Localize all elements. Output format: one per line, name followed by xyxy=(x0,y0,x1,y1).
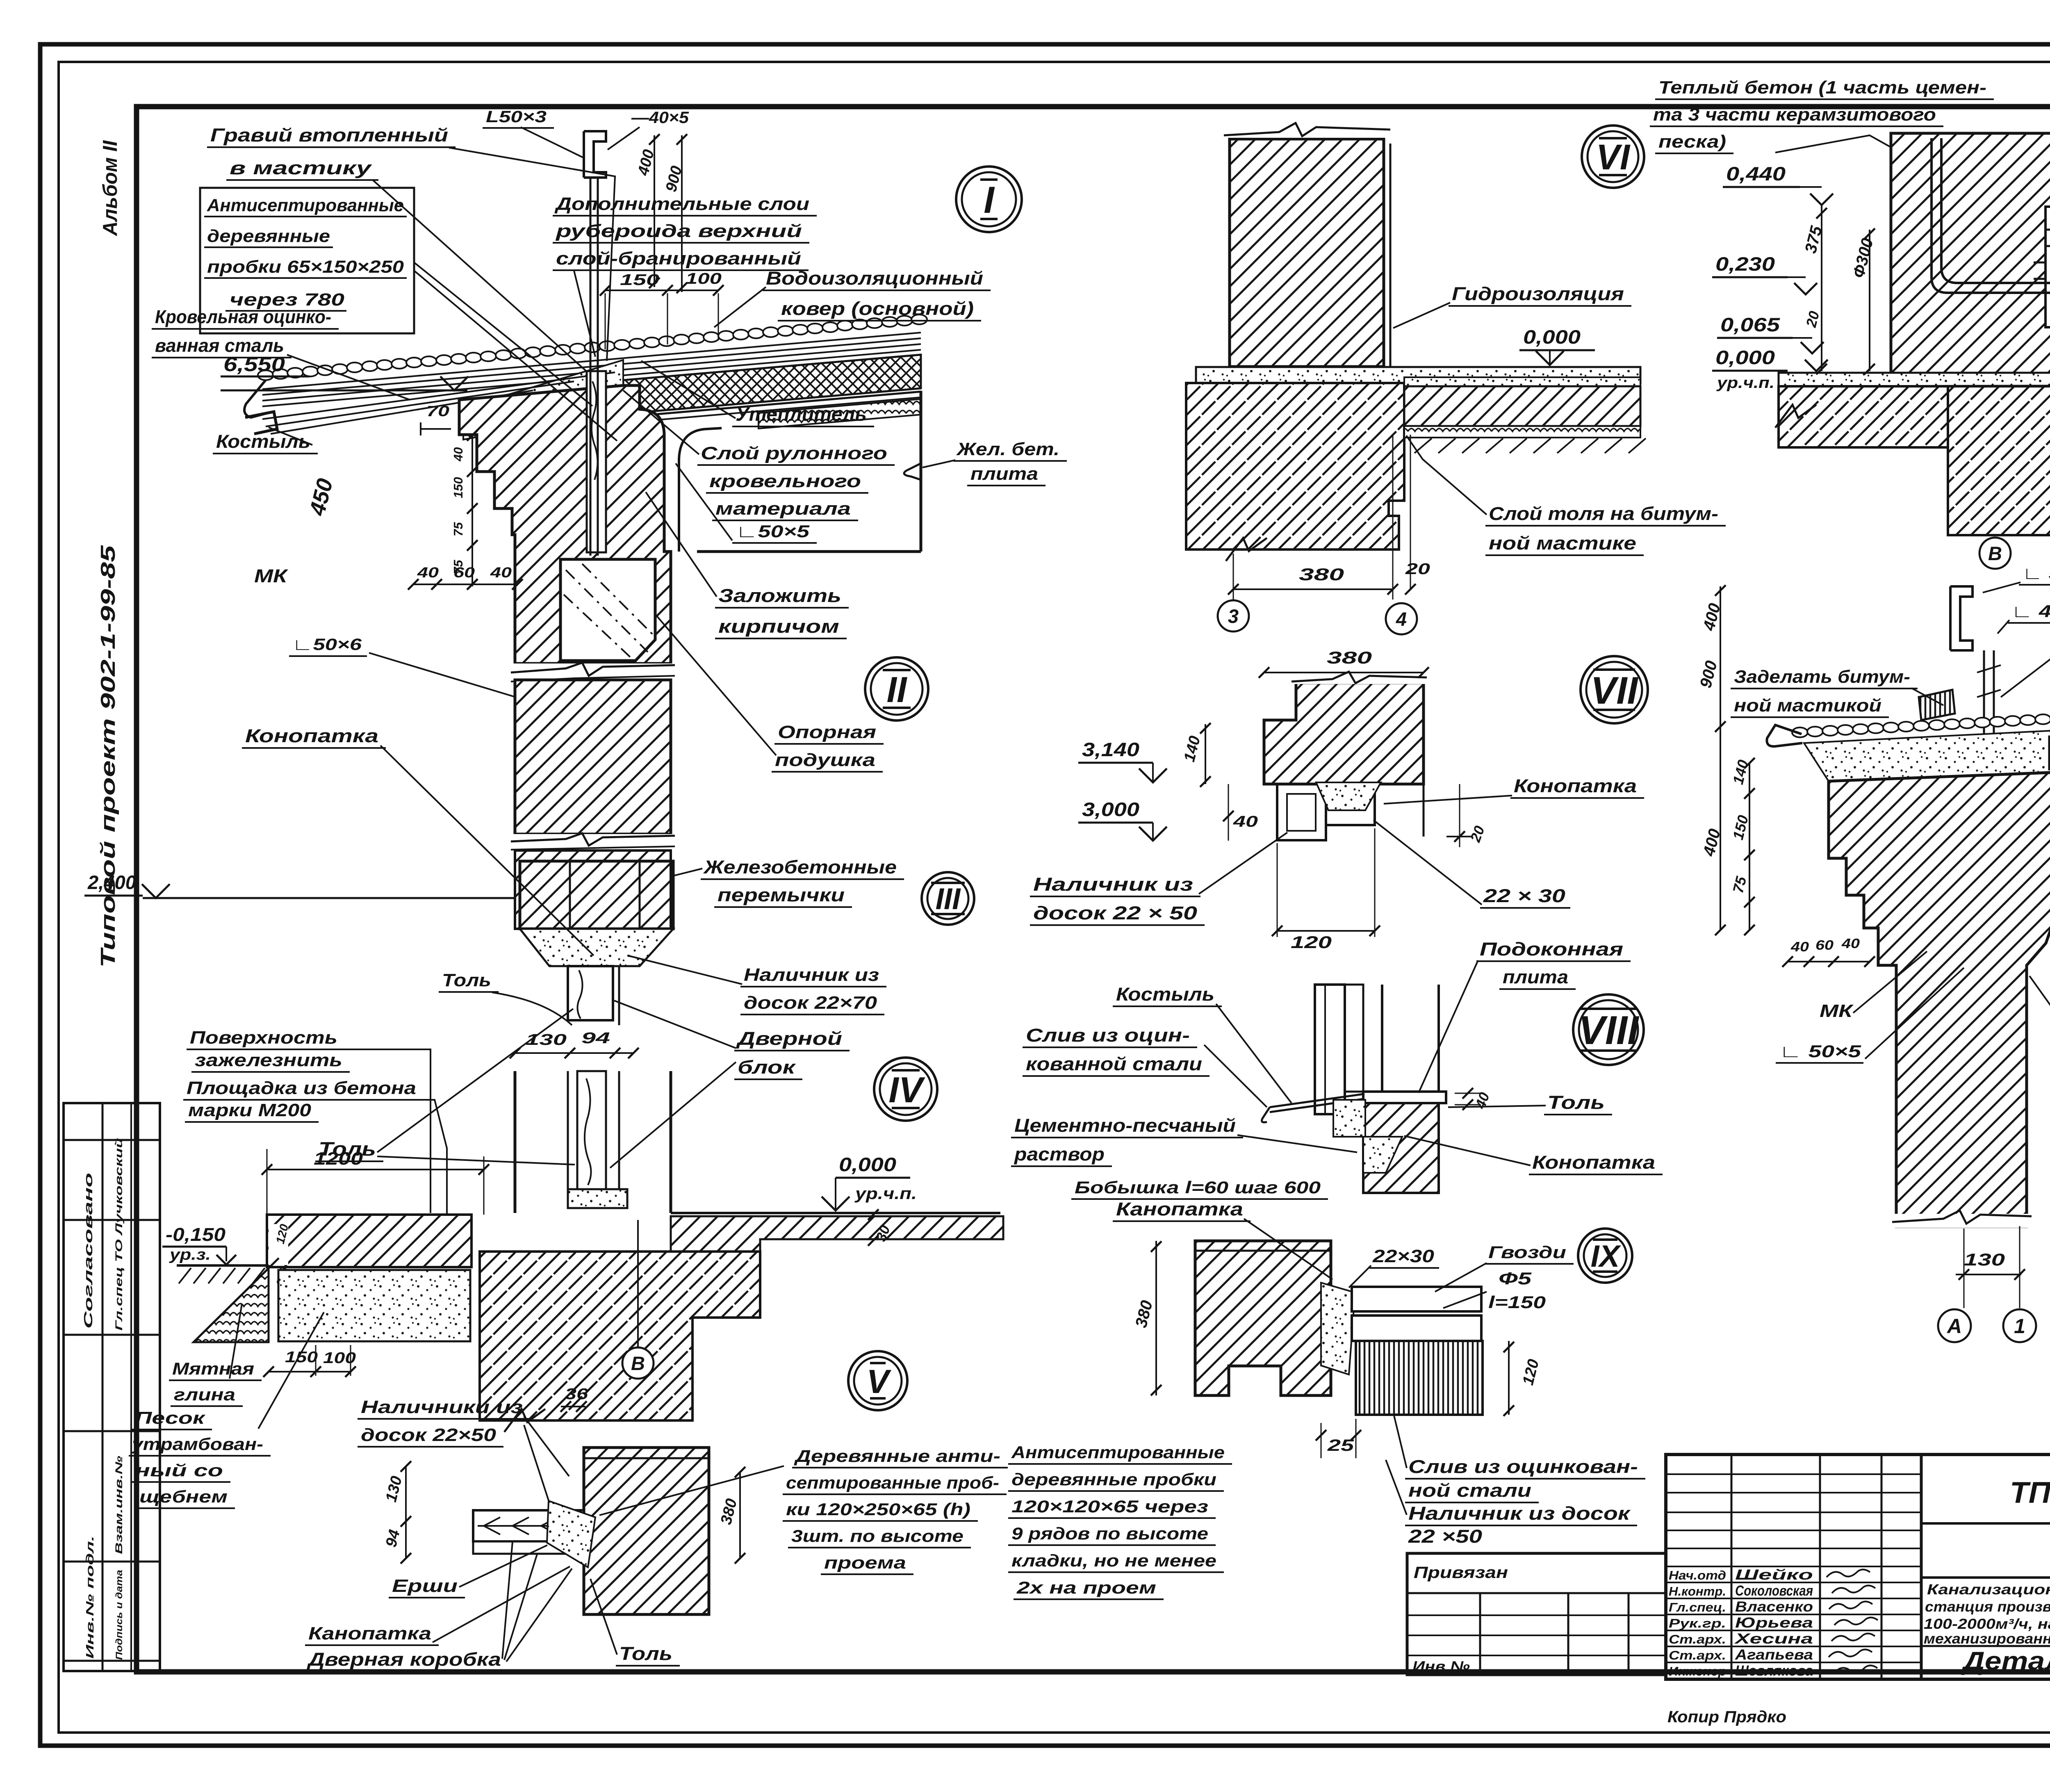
detail X floor slab stipple xyxy=(1779,373,2050,386)
svg-text:40: 40 xyxy=(1841,936,1860,951)
svg-text:0,440: 0,440 xyxy=(1726,163,1786,185)
detail VII caulk wedge xyxy=(1316,782,1381,810)
title block bottom line xyxy=(1666,1678,2050,1680)
detail I steel apron lines xyxy=(262,372,615,419)
svg-text:В: В xyxy=(631,1352,645,1374)
detail I roof gravel row xyxy=(258,370,273,380)
leader gravij xyxy=(449,148,615,361)
svg-text:Дверной: Дверной xyxy=(736,1028,842,1049)
svg-text:А: А xyxy=(1946,1315,1962,1338)
svg-text:перемычки: перемычки xyxy=(717,885,845,905)
detail VII window frame boxes xyxy=(1277,784,1326,840)
svg-text:Наличник из: Наличник из xyxy=(1033,874,1193,895)
detail VI marker circle xyxy=(1582,125,1644,188)
svg-text:ТП 902-1-99-85 - АР: ТП 902-1-99-85 - АР xyxy=(2010,1476,2050,1509)
svg-text:ный со: ный со xyxy=(135,1461,223,1480)
svg-text:Дополнительные слои: Дополнительные слои xyxy=(554,194,809,214)
svg-text:Ст.арх.: Ст.арх. xyxy=(1669,1648,1726,1662)
svg-text:МК: МК xyxy=(254,565,289,586)
svg-text:Инв.№ подл.: Инв.№ подл. xyxy=(84,1536,96,1659)
detail III marker circle xyxy=(922,872,974,925)
svg-text:рубероида верхний: рубероида верхний xyxy=(556,221,802,241)
svg-text:септированные проб-: септированные проб- xyxy=(786,1473,999,1492)
svg-text:6,550: 6,550 xyxy=(223,353,285,376)
svg-text:ур.з.: ур.з. xyxy=(169,1246,211,1263)
svg-text:Копир Прядко: Копир Прядко xyxy=(1667,1708,1786,1726)
svg-text:9 рядов по высоте: 9 рядов по высоте xyxy=(1011,1524,1208,1543)
svg-text:Привязан: Привязан xyxy=(1414,1564,1508,1582)
svg-text:120: 120 xyxy=(1291,932,1332,952)
svg-text:Антисептированные: Антисептированные xyxy=(1011,1443,1225,1462)
svg-text:Инв.№: Инв.№ xyxy=(1412,1658,1470,1675)
svg-text:Мятная: Мятная xyxy=(172,1359,254,1378)
detail XI insulation cross-hatch xyxy=(2049,730,2050,769)
axis circles 3 and 4 xyxy=(1218,600,1249,632)
svg-text:75: 75 xyxy=(451,522,465,536)
svg-text:120×120×65 через: 120×120×65 через xyxy=(1011,1497,1208,1516)
detail I masonry wall and cornice xyxy=(459,385,671,663)
platform inner dims 120 100 xyxy=(269,1224,288,1265)
svg-text:∟ 50×5: ∟ 50×5 xyxy=(1779,1042,1861,1061)
svg-text:Площадка из бетона: Площадка из бетона xyxy=(187,1078,416,1098)
svg-text:40: 40 xyxy=(1233,813,1258,830)
svg-text:∟ 50×5: ∟ 50×5 xyxy=(2022,563,2050,583)
svg-text:Конопатка: Конопатка xyxy=(1514,775,1637,796)
svg-text:Наличник из: Наличник из xyxy=(744,965,879,985)
svg-text:плита: плита xyxy=(1503,967,1568,987)
svg-text:Дверная коробка: Дверная коробка xyxy=(306,1649,501,1670)
svg-text:зажелезнить: зажелезнить xyxy=(195,1050,342,1070)
svg-text:150: 150 xyxy=(620,271,659,289)
svg-text:Заложить: Заложить xyxy=(718,585,841,606)
svg-text:2,400: 2,400 xyxy=(87,871,136,893)
detail IX boards xyxy=(1352,1287,1481,1311)
svg-text:3,140: 3,140 xyxy=(1082,739,1139,760)
leader krovelnaja stal xyxy=(287,355,410,400)
svg-text:Инженер: Инженер xyxy=(1669,1664,1726,1678)
detail V second board xyxy=(473,1541,584,1554)
detail VIII marker circle xyxy=(1573,994,1644,1065)
axis circles A and 1 xyxy=(1938,1309,1971,1342)
svg-text:22 × 30: 22 × 30 xyxy=(1483,885,1565,906)
detail X vertical dim lines xyxy=(1821,205,1822,371)
svg-text:Слив из оцин-: Слив из оцин- xyxy=(1026,1025,1190,1046)
clay slope scallops xyxy=(194,1268,269,1342)
svg-text:36: 36 xyxy=(565,1386,588,1403)
svg-text:40: 40 xyxy=(417,565,439,581)
svg-text:подушка: подушка xyxy=(775,750,875,770)
detail V caulk wedge xyxy=(547,1501,595,1567)
svg-text:досок 22 × 50: досок 22 × 50 xyxy=(1033,903,1197,923)
detail V marker circle xyxy=(848,1351,907,1410)
svg-text:кирпичом: кирпичом xyxy=(718,616,839,637)
dim 380 IX xyxy=(1155,1241,1157,1395)
svg-text:Толь: Толь xyxy=(442,970,491,990)
svg-text:∟ 40×6: ∟ 40×6 xyxy=(2011,602,2050,621)
svg-text:Альбом II: Альбом II xyxy=(99,140,121,236)
svg-text:Слой толя на битум-: Слой толя на битум- xyxy=(1489,503,1718,524)
svg-text:Агапьева: Агапьева xyxy=(1735,1647,1813,1663)
privjazan table xyxy=(1407,1553,1666,1675)
detail XI screed stipple wedge xyxy=(1804,731,2050,781)
dims 400 900 vertical xyxy=(654,135,655,287)
svg-text:40: 40 xyxy=(490,565,512,581)
foundation under wall detail IV xyxy=(480,1252,760,1420)
svg-text:ур.ч.п.: ур.ч.п. xyxy=(854,1185,917,1203)
svg-text:Гвозди: Гвозди xyxy=(1488,1243,1566,1262)
detail I slab edge break xyxy=(904,463,921,480)
detail VIII caulk stipple xyxy=(1333,1100,1365,1137)
svg-text:деревянные пробки: деревянные пробки xyxy=(1011,1470,1216,1489)
svg-text:VI: VI xyxy=(1596,137,1631,177)
svg-text:деревянные: деревянные xyxy=(207,226,330,246)
svg-text:Юрьева: Юрьева xyxy=(1735,1615,1813,1631)
svg-text:70: 70 xyxy=(426,403,449,420)
svg-text:380: 380 xyxy=(1299,565,1344,584)
detail V dims 130 94 380 36 xyxy=(405,1466,407,1558)
svg-text:Цементно-песчаный: Цементно-песчаный xyxy=(1014,1115,1236,1136)
svg-text:кладки, но не менее: кладки, но не менее xyxy=(1011,1551,1216,1570)
detail VI wall xyxy=(1230,139,1384,367)
label antiseptic plugs box xyxy=(200,188,414,333)
svg-text:Нач.отд: Нач.отд xyxy=(1669,1568,1726,1582)
dim 140 VII xyxy=(1205,724,1206,784)
svg-text:Соколовская: Соколовская xyxy=(1735,1583,1813,1599)
door frame head detail III xyxy=(568,966,613,1020)
svg-text:0,000: 0,000 xyxy=(839,1154,896,1175)
svg-text:плита: плита xyxy=(970,464,1038,484)
svg-text:Слой рулонного: Слой рулонного xyxy=(701,443,887,463)
svg-text:утрамбован-: утрамбован- xyxy=(131,1434,263,1454)
left margin signature strip table xyxy=(64,1103,160,1671)
svg-text:-0,150: -0,150 xyxy=(166,1224,225,1245)
svg-text:22×30: 22×30 xyxy=(1372,1246,1435,1266)
svg-text:Детали I -XI: Детали I -XI xyxy=(1961,1647,2050,1676)
detail VIII wall upper right xyxy=(1381,985,1383,1103)
ground level line and hatch xyxy=(177,1264,267,1267)
svg-text:Шевлякова: Шевлякова xyxy=(1735,1663,1813,1679)
svg-text:Жел. бет.: Жел. бет. xyxy=(956,439,1059,459)
svg-text:∟50×6: ∟50×6 xyxy=(292,636,362,654)
detail VIII wall below sill xyxy=(1363,1103,1439,1193)
svg-text:IV: IV xyxy=(888,1069,925,1110)
detail I antiseptic plug channel xyxy=(587,371,606,552)
svg-text:Власенко: Власенко xyxy=(1735,1599,1813,1615)
svg-text:ур.ч.п.: ур.ч.п. xyxy=(1716,374,1774,392)
svg-text:100: 100 xyxy=(686,270,722,287)
lintel wood stipple band xyxy=(520,929,673,966)
sand concrete prep stipple xyxy=(278,1270,470,1341)
detail VI ground hatch ticks xyxy=(1414,438,1432,453)
svg-text:Костыль: Костыль xyxy=(216,431,310,452)
svg-text:Бобышка l=60 шаг 600: Бобышка l=60 шаг 600 xyxy=(1075,1178,1321,1197)
svg-text:Гидроизоляция: Гидроизоляция xyxy=(1452,283,1624,304)
svg-text:Теплый бетон (1 часть цемен-: Теплый бетон (1 часть цемен- xyxy=(1658,78,1986,98)
svg-text:2х на проем: 2х на проем xyxy=(1016,1578,1156,1597)
detail XI board layer xyxy=(2049,768,2050,775)
svg-text:Деревянные анти-: Деревянные анти- xyxy=(794,1446,1000,1466)
svg-text:ванная сталь: ванная сталь xyxy=(155,335,284,356)
svg-text:Толь: Толь xyxy=(619,1643,672,1664)
floor slab right of wall xyxy=(671,1212,1000,1214)
svg-text:Подпись и дата: Подпись и дата xyxy=(114,1570,124,1660)
axis circle V-detail B xyxy=(622,1347,654,1379)
svg-text:Песок: Песок xyxy=(135,1408,205,1427)
dim 120 IX xyxy=(1508,1341,1510,1415)
svg-text:40: 40 xyxy=(1790,939,1809,954)
svg-text:проема: проема xyxy=(824,1553,906,1572)
detail I slab top hatched strip xyxy=(758,399,921,429)
svg-text:25: 25 xyxy=(1327,1436,1355,1455)
svg-text:Наличники из: Наличники из xyxy=(361,1397,523,1417)
svg-text:I: I xyxy=(984,179,995,221)
detail VII lintel block xyxy=(1264,683,1424,784)
detail IV wall outline xyxy=(514,1071,517,1213)
svg-text:Шейко: Шейко xyxy=(1735,1567,1813,1583)
svg-text:раствор: раствор xyxy=(1014,1144,1105,1165)
svg-text:Железобетонные: Железобетонные xyxy=(703,857,897,878)
detail X kryshka recess box xyxy=(2045,207,2050,327)
svg-text:Опорная: Опорная xyxy=(778,722,876,742)
svg-text:ковер (основной): ковер (основной) xyxy=(781,298,974,319)
svg-text:20: 20 xyxy=(1405,561,1430,578)
detail VI hydro layer band xyxy=(1404,377,1640,386)
svg-text:механизированными решетками: механизированными решетками xyxy=(1924,1631,2050,1647)
svg-text:кованной стали: кованной стали xyxy=(1026,1053,1202,1074)
detail VI foundation xyxy=(1186,383,1404,549)
svg-text:0,000: 0,000 xyxy=(1523,326,1581,348)
svg-text:60: 60 xyxy=(453,565,475,581)
detail II marker circle xyxy=(865,657,928,720)
svg-text:3шт. по высоте: 3шт. по высоте xyxy=(791,1526,963,1546)
detail X pipe xyxy=(1930,138,1933,277)
wall strip between breaks xyxy=(515,680,671,834)
svg-text:Канализационная насосная: Канализационная насосная xyxy=(1927,1582,2050,1598)
svg-text:ки 120×250×65 (h): ки 120×250×65 (h) xyxy=(786,1500,970,1519)
detail VIII window frame verticals xyxy=(1315,985,1345,1114)
svg-text:Костыль: Костыль xyxy=(1116,984,1214,1005)
svg-text:Заделать битум-: Заделать битум- xyxy=(1734,667,1910,687)
title block project name cell xyxy=(1921,1576,2050,1579)
detail VII lintel top break xyxy=(1291,673,1427,684)
detail XI dim chains left xyxy=(1720,586,1721,930)
svg-text:Антисептированные: Антисептированные xyxy=(207,196,404,215)
svg-text:0,230: 0,230 xyxy=(1715,253,1775,275)
detail I top bracket L50x3 xyxy=(584,131,606,178)
svg-text:380: 380 xyxy=(1327,648,1372,667)
svg-text:Слив из оцинкован-: Слив из оцинкован- xyxy=(1408,1456,1638,1477)
wall break 2 xyxy=(511,834,675,850)
svg-text:Типовой проект 902-1-99-85: Типовой проект 902-1-99-85 xyxy=(97,545,119,968)
detail XI mastic hump xyxy=(1919,690,1955,720)
svg-text:130: 130 xyxy=(1964,1250,2005,1269)
svg-text:досок 22×50: досок 22×50 xyxy=(361,1425,497,1445)
svg-text:Ст.арх.: Ст.арх. xyxy=(1669,1632,1726,1646)
svg-text:150: 150 xyxy=(451,477,465,498)
detail I marker circle xyxy=(956,166,1022,232)
svg-text:кровельного: кровельного xyxy=(709,471,861,491)
detail I kostyl bracket xyxy=(245,412,277,434)
detail VIII cement wedge xyxy=(1363,1137,1402,1173)
detail IX marker circle xyxy=(1578,1229,1632,1283)
detail IX jamb caulk wedge xyxy=(1321,1283,1355,1375)
svg-text:V: V xyxy=(867,1363,892,1400)
detail IV door frame tol channel xyxy=(577,1071,606,1190)
svg-text:40: 40 xyxy=(451,447,465,462)
title block left columns xyxy=(1731,1455,1733,1679)
svg-text:Рук.гр.: Рук.гр. xyxy=(1669,1616,1726,1630)
detail I roof insulation cross-hatch band xyxy=(623,355,921,414)
svg-text:материала: материала xyxy=(715,499,851,519)
svg-text:блок: блок xyxy=(738,1057,796,1078)
detail VII right edge xyxy=(1423,784,1425,837)
detail VII marker circle xyxy=(1581,656,1648,723)
svg-text:22 ×50: 22 ×50 xyxy=(1408,1526,1482,1547)
svg-text:Гравий втопленный: Гравий втопленный xyxy=(210,125,448,146)
svg-text:пробки 65×150×250: пробки 65×150×250 xyxy=(207,257,404,277)
svg-text:II: II xyxy=(887,669,907,710)
detail XI eave drip xyxy=(1767,725,1802,746)
svg-text:Поверхность: Поверхность xyxy=(190,1028,337,1048)
svg-text:∟50×5: ∟50×5 xyxy=(736,522,810,541)
svg-text:Хесина: Хесина xyxy=(1734,1631,1813,1647)
svg-text:Взам.инв.№: Взам.инв.№ xyxy=(114,1455,125,1554)
svg-text:Кровельная оцинко-: Кровельная оцинко- xyxy=(155,306,331,327)
detail IX wall block plan xyxy=(1195,1241,1331,1395)
svg-text:песка): песка) xyxy=(1658,132,1726,152)
svg-text:VIII: VIII xyxy=(1578,1008,1639,1053)
detail X foundation left strip xyxy=(1779,386,1948,447)
svg-text:щебнем: щебнем xyxy=(139,1487,228,1506)
detail I slab outline xyxy=(920,391,922,552)
detail XI top bracket xyxy=(1950,586,1973,650)
svg-text:94: 94 xyxy=(581,1030,610,1047)
lintel zone hatched xyxy=(515,850,671,929)
detail I wall break gap xyxy=(511,663,675,680)
svg-text:Подоконная: Подоконная xyxy=(1480,939,1623,960)
axis circle B detail XI xyxy=(1979,538,2011,569)
svg-text:VII: VII xyxy=(1591,669,1639,712)
svg-text:Конопатка: Конопатка xyxy=(1532,1152,1655,1173)
detail XI masonry wall xyxy=(1829,772,2050,1227)
svg-text:1: 1 xyxy=(2014,1315,2025,1338)
svg-text:слой-бранированный: слой-бранированный xyxy=(556,249,801,269)
svg-text:3: 3 xyxy=(1228,605,1239,627)
svg-text:Ф5: Ф5 xyxy=(1499,1269,1532,1288)
svg-text:3,000: 3,000 xyxy=(1082,798,1139,820)
detail V wall block plan xyxy=(584,1448,709,1614)
svg-text:ной стали: ной стали xyxy=(1408,1480,1531,1501)
detail I screed stipple wedge xyxy=(463,360,623,440)
detail VI scallop row under band xyxy=(1404,426,1640,438)
svg-text:Ерши: Ерши xyxy=(392,1576,458,1596)
svg-text:досок 22×70: досок 22×70 xyxy=(744,993,877,1013)
svg-text:Водоизоляционный: Водоизоляционный xyxy=(766,268,983,289)
svg-text:в мастику: в мастику xyxy=(230,157,372,178)
svg-text:ной мастике: ной мастике xyxy=(1489,533,1636,554)
foundation break marks xyxy=(504,1409,545,1432)
detail IV door sill block xyxy=(568,1189,627,1208)
detail I eave drip edge xyxy=(244,380,266,417)
detail VIII sill slab xyxy=(1363,1092,1446,1103)
detail VI wall top break xyxy=(1224,123,1389,138)
svg-text:Канопатка: Канопатка xyxy=(308,1623,431,1644)
svg-text:марки М200: марки М200 xyxy=(188,1100,312,1120)
detail X wall hatched xyxy=(1891,133,2050,379)
svg-text:1200: 1200 xyxy=(314,1149,363,1169)
svg-text:глина: глина xyxy=(174,1385,235,1404)
detail V board strip xyxy=(473,1510,584,1541)
detail VIII sliv slanted xyxy=(1262,1094,1363,1122)
svg-text:0,065: 0,065 xyxy=(1720,314,1780,335)
title block signatures scribbles xyxy=(1827,1569,1870,1577)
svg-text:Утеплитель: Утеплитель xyxy=(736,403,867,425)
svg-text:Конопатка: Конопатка xyxy=(245,725,378,746)
detail I roof membrane lines xyxy=(262,333,921,389)
svg-text:Гл.спец ТО Лучковский: Гл.спец ТО Лучковский xyxy=(114,1138,125,1331)
detail XI anchor strap xyxy=(1983,650,1985,955)
svg-text:Наличник из досок: Наличник из досок xyxy=(1408,1503,1631,1524)
detail IX sliv striped band xyxy=(1356,1341,1483,1415)
svg-text:та 3 части керамзитового: та 3 части керамзитового xyxy=(1653,105,1936,125)
svg-text:4: 4 xyxy=(1396,608,1407,630)
svg-text:—40×5: —40×5 xyxy=(631,109,689,127)
title block details name xyxy=(1921,1645,2050,1647)
lintel block outline xyxy=(520,861,673,929)
svg-text:0,000: 0,000 xyxy=(1715,347,1775,368)
svg-text:100-2000м³/ч, напором 30-40м с: 100-2000м³/ч, напором 30-40м с xyxy=(1924,1616,2050,1632)
svg-text:Гл.спец.: Гл.спец. xyxy=(1669,1600,1726,1614)
svg-text:Канопатка: Канопатка xyxy=(1116,1199,1243,1220)
svg-text:В: В xyxy=(1988,543,2002,564)
svg-text:L50×3: L50×3 xyxy=(486,108,547,126)
detail VI floor slab stipple xyxy=(1196,367,1640,383)
leader antiseptic plugs xyxy=(414,262,592,406)
cornice dim chain xyxy=(471,435,473,586)
detail XI wall bottom break xyxy=(1892,1214,2032,1228)
detail IV marker circle xyxy=(874,1058,937,1121)
detail X foundation main block xyxy=(1948,386,2050,535)
svg-text:III: III xyxy=(936,882,961,916)
svg-text:МК: МК xyxy=(1820,1001,1854,1021)
detail I roof board layer xyxy=(623,392,921,417)
svg-text:IX: IX xyxy=(1591,1239,1622,1273)
svg-text:Толь: Толь xyxy=(1547,1092,1605,1113)
svg-text:станция производительностью: станция производительностью xyxy=(1925,1599,2050,1615)
svg-text:60: 60 xyxy=(1815,937,1834,953)
platform concrete xyxy=(267,1215,471,1267)
svg-text:Н.контр.: Н.контр. xyxy=(1669,1584,1726,1598)
svg-text:Согласовано: Согласовано xyxy=(82,1173,95,1329)
detail XI roof band xyxy=(1792,727,1808,737)
title block outer xyxy=(1666,1455,2050,1679)
detail I support pad block xyxy=(560,559,655,661)
detail I anchor strap xyxy=(590,176,592,556)
svg-text:l=150: l=150 xyxy=(1488,1293,1546,1312)
svg-text:ной мастикой: ной мастикой xyxy=(1734,695,1881,716)
